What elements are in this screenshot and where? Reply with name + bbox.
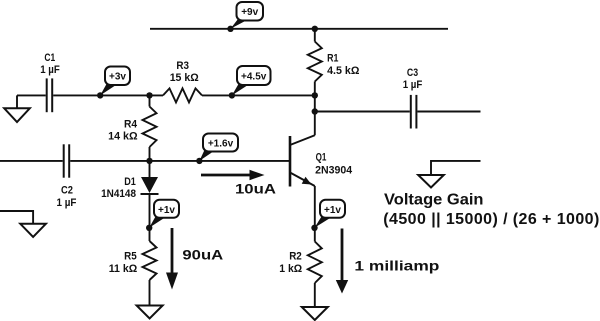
label R4 value bbox=[108, 119, 138, 143]
resistor R2 bbox=[308, 242, 322, 284]
svg-text:1 µF: 1 µF bbox=[57, 197, 77, 209]
svg-text:Q1: Q1 bbox=[316, 152, 327, 164]
svg-text:10uA: 10uA bbox=[235, 181, 276, 197]
svg-text:R5: R5 bbox=[124, 251, 137, 263]
wire R1 bottom lead / collector column bbox=[314, 82, 316, 112]
svg-text:2N3904: 2N3904 bbox=[315, 164, 353, 176]
label C1 value bbox=[40, 52, 60, 76]
wire R5 to ground bbox=[149, 280, 151, 306]
svg-text:C3: C3 bbox=[407, 67, 418, 79]
svg-text:+4.5v: +4.5v bbox=[241, 72, 267, 83]
resistor R3 bbox=[163, 88, 202, 102]
ground top-left bbox=[4, 95, 30, 122]
svg-text:1 kΩ: 1 kΩ bbox=[279, 263, 302, 275]
junction rail / R1 bbox=[312, 26, 318, 32]
svg-text:+1v: +1v bbox=[158, 205, 175, 216]
arrow 1 milliamp bbox=[336, 229, 440, 294]
svg-text:R2: R2 bbox=[289, 251, 302, 263]
svg-text:+9v: +9v bbox=[241, 7, 258, 18]
capacitor C1 bbox=[47, 78, 53, 112]
wire R2 to ground bbox=[314, 283, 316, 307]
label C2 value bbox=[57, 185, 77, 210]
svg-text:C2: C2 bbox=[61, 185, 73, 197]
ground below R2 bbox=[302, 307, 328, 320]
svg-text:(4500 || 15000) / (26 + 1000): (4500 || 15000) / (26 + 1000) bbox=[383, 211, 599, 228]
wire R3 to R1 bottom bbox=[202, 94, 315, 96]
wire input line bbox=[0, 160, 63, 162]
svg-text:+1v: +1v bbox=[324, 205, 341, 216]
svg-text:15 kΩ: 15 kΩ bbox=[170, 72, 199, 84]
resistor R5 bbox=[143, 241, 157, 280]
svg-text:R3: R3 bbox=[176, 60, 189, 72]
svg-text:+1.6v: +1.6v bbox=[208, 139, 234, 150]
svg-text:11 kΩ: 11 kΩ bbox=[109, 263, 138, 275]
node +1v right bbox=[311, 225, 317, 231]
svg-text:R4: R4 bbox=[124, 119, 138, 131]
arrow 90uA bbox=[166, 228, 223, 290]
node +1.6v bbox=[196, 158, 202, 164]
diode D1 bbox=[141, 177, 159, 194]
wire R4 leads bbox=[149, 95, 151, 106]
callout +1.6v bbox=[199, 134, 238, 161]
wire R1 top lead bbox=[314, 29, 316, 42]
svg-text:Voltage Gain: Voltage Gain bbox=[384, 192, 484, 209]
label R3 value bbox=[170, 60, 199, 84]
node +9v bbox=[227, 26, 233, 32]
ground right output with hook bbox=[418, 161, 480, 188]
wire C3 to output end bbox=[417, 111, 480, 113]
callout +9v bbox=[231, 2, 264, 29]
svg-text:C1: C1 bbox=[44, 52, 55, 64]
callout +4.5v bbox=[232, 66, 271, 95]
wire top +9v rail bbox=[150, 28, 448, 30]
capacitor C2 bbox=[64, 144, 69, 177]
resistor R4 bbox=[143, 107, 157, 148]
label R5 value bbox=[109, 251, 138, 276]
wire D1 top lead bbox=[149, 161, 151, 177]
svg-text:+3v: +3v bbox=[109, 72, 126, 83]
label D1 value bbox=[101, 176, 136, 200]
ground below R5 bbox=[137, 306, 163, 319]
junction R3 / R4 / C1 bbox=[146, 92, 152, 98]
junction base / R4 / D1 bbox=[146, 158, 152, 164]
label R1 value bbox=[327, 52, 359, 76]
callout +1v left bbox=[149, 200, 179, 228]
node +1v left bbox=[146, 225, 152, 231]
wire mid left (C1 line to R3) bbox=[17, 94, 46, 96]
wire D1 bottom lead to R5 bbox=[149, 194, 151, 241]
label C3 value bbox=[403, 67, 423, 91]
svg-text:4.5 kΩ: 4.5 kΩ bbox=[327, 65, 359, 77]
wire output line to C3 bbox=[315, 111, 410, 113]
label Q1 value bbox=[315, 152, 353, 177]
callout +3v bbox=[100, 67, 130, 96]
transistor Q1 bbox=[290, 112, 315, 187]
label R2 value bbox=[279, 251, 302, 276]
node +4.5v bbox=[229, 92, 235, 98]
resistor R1 bbox=[308, 42, 322, 82]
wire bbox=[53, 94, 163, 96]
svg-text:1 µF: 1 µF bbox=[403, 79, 423, 91]
svg-text:R1: R1 bbox=[327, 52, 338, 64]
svg-text:90uA: 90uA bbox=[182, 247, 223, 263]
text voltage gain note bbox=[383, 192, 599, 228]
junction collector / output bbox=[312, 108, 318, 114]
capacitor C3 bbox=[411, 95, 417, 129]
junction R1 bottom bbox=[312, 92, 318, 98]
wire emitter column to R2 bbox=[314, 186, 316, 242]
svg-text:1 milliamp: 1 milliamp bbox=[354, 257, 439, 273]
svg-text:1 µF: 1 µF bbox=[40, 64, 60, 76]
node +3v bbox=[97, 92, 103, 98]
svg-text:D1: D1 bbox=[124, 176, 136, 188]
callout +1v right bbox=[315, 200, 346, 228]
svg-text:14 kΩ: 14 kΩ bbox=[108, 131, 138, 143]
svg-text:1N4148: 1N4148 bbox=[101, 188, 136, 200]
arrow 10uA bbox=[201, 170, 276, 197]
ground bottom-left with hook bbox=[0, 211, 46, 237]
wire base line bbox=[70, 160, 289, 162]
